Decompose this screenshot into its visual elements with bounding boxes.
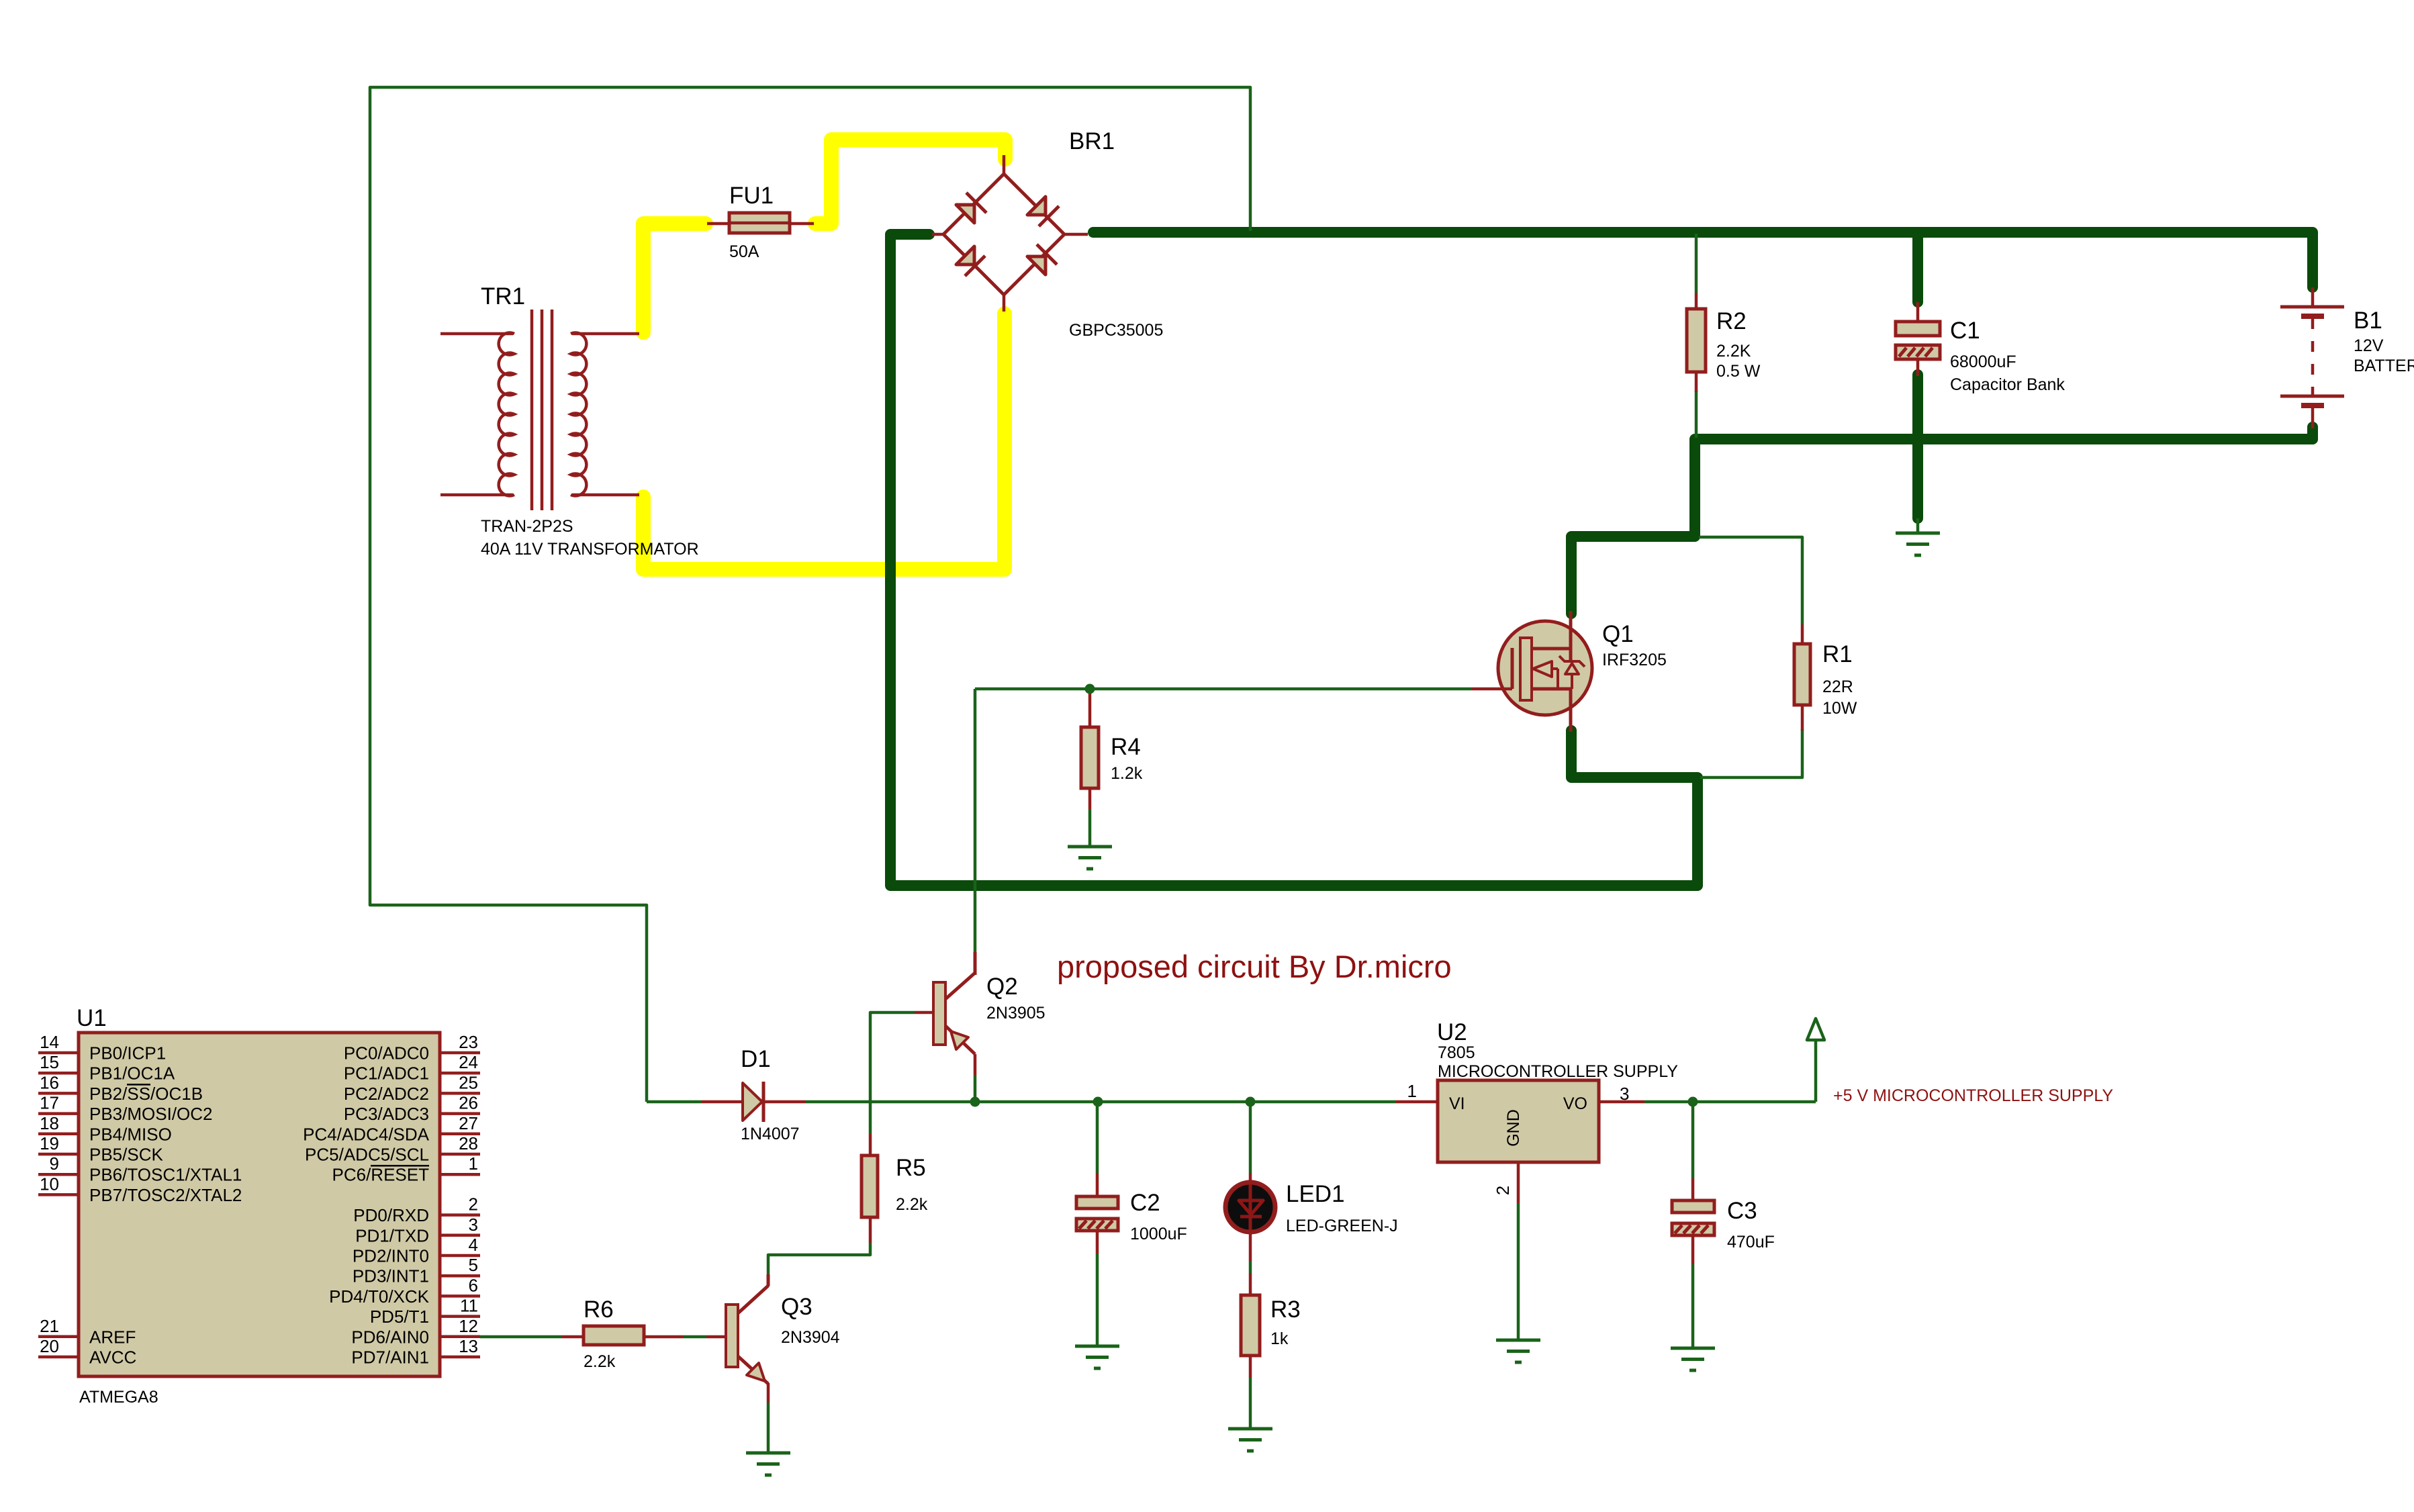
- svg-text:C1: C1: [1950, 318, 1980, 344]
- label U2 pin number 1: [1407, 1081, 1417, 1101]
- wire: LED1 cathode to R3 top: [1249, 1231, 1252, 1296]
- label R4 value 1.2k: [1111, 764, 1143, 783]
- svg-text:PC4/ADC4/SDA: PC4/ADC4/SDA: [303, 1124, 429, 1144]
- wire: U2 GND pin 2 to ground: [1517, 1162, 1520, 1339]
- wire: R3 bottom lead to ground: [1249, 1356, 1252, 1427]
- svg-text:24: 24: [459, 1052, 478, 1072]
- label Q3 model 2N3904: [781, 1328, 840, 1347]
- svg-text:ATMEGA8: ATMEGA8: [79, 1388, 158, 1407]
- wire: drain node over to R1 top: [1699, 537, 1802, 624]
- transformer TR1: [440, 310, 639, 510]
- svg-text:VO: VO: [1563, 1094, 1587, 1113]
- junction: gate line / R4: [1085, 684, 1095, 694]
- svg-text:14: 14: [40, 1032, 59, 1052]
- U1 left pin 20 AVCC: [38, 1336, 136, 1368]
- svg-text:16: 16: [40, 1072, 59, 1092]
- svg-text:3: 3: [469, 1215, 478, 1235]
- label C1 value 68000uF: [1950, 352, 2016, 371]
- svg-text:9: 9: [50, 1153, 59, 1174]
- label TR1 value 40A 11V TRANSFORMATOR: [481, 540, 699, 559]
- svg-text:proposed circuit By Dr.micro: proposed circuit By Dr.micro: [1057, 949, 1452, 984]
- svg-text:1000uF: 1000uF: [1130, 1225, 1187, 1243]
- svg-text:PC1/ADC1: PC1/ADC1: [344, 1064, 429, 1084]
- svg-text:22R: 22R: [1822, 677, 1853, 696]
- label BR1 designator: [1069, 128, 1115, 154]
- label R2 value 2.2K: [1716, 342, 1751, 361]
- svg-text:GBPC35005: GBPC35005: [1069, 321, 1163, 340]
- svg-text:25: 25: [459, 1072, 478, 1092]
- svg-text:R4: R4: [1111, 734, 1141, 760]
- svg-text:13: 13: [459, 1336, 478, 1356]
- svg-text:PD4/T0/XCK: PD4/T0/XCK: [329, 1286, 429, 1307]
- U1 left pin 21 AREF: [38, 1316, 136, 1348]
- fuse FU1: [707, 213, 814, 233]
- label R5 value 2.2k: [896, 1195, 928, 1214]
- svg-text:AVCC: AVCC: [89, 1348, 136, 1368]
- svg-text:PB4/MISO: PB4/MISO: [89, 1124, 172, 1144]
- microcontroller U1 (ATMEGA8): [79, 1033, 440, 1376]
- resistor R1: [1794, 624, 1810, 730]
- U1 right pin 5 PD3/INT1: [353, 1255, 480, 1286]
- svg-text:PB5/SCK: PB5/SCK: [89, 1145, 163, 1165]
- U1 right pin 1 PC6/RESET: [332, 1153, 481, 1185]
- svg-text:3: 3: [1620, 1084, 1629, 1104]
- ground: below C2: [1075, 1346, 1119, 1368]
- svg-text:1N4007: 1N4007: [741, 1125, 800, 1143]
- svg-text:LED-GREEN-J: LED-GREEN-J: [1286, 1217, 1398, 1235]
- svg-text:1: 1: [1407, 1081, 1417, 1101]
- wire thick: Q1 source to bottom return bus to BR1 - output: [890, 234, 1698, 886]
- ground: below R4: [1068, 847, 1112, 869]
- U1 left pin 14 PB0/ICP1: [38, 1032, 166, 1064]
- U1 right pin 24 PC1/ADC1: [344, 1052, 480, 1084]
- label R5 designator: [896, 1155, 926, 1181]
- U1 right pin 11 PD5/T1: [370, 1296, 480, 1327]
- wire thick: C1 bottom lead through lower bus to ground: [1912, 375, 1923, 518]
- svg-text:PD6/AIN0: PD6/AIN0: [351, 1327, 429, 1347]
- resistor R2: [1687, 293, 1706, 392]
- wire: Q2 collector up to gate line: [974, 689, 977, 953]
- label U2 value 7805: [1438, 1043, 1475, 1062]
- svg-text:LED1: LED1: [1286, 1181, 1345, 1207]
- transistor Q1 (IRF3205 MOSFET): [1472, 611, 1592, 732]
- wire yellow: TR1 secondary bottom to BR1 bottom (AC input): [643, 314, 1005, 569]
- wire: from positive bus at x=1862 up and around left frame down to D1 anode: [370, 87, 1250, 1102]
- svg-text:2N3904: 2N3904: [781, 1328, 840, 1347]
- svg-text:15: 15: [40, 1052, 59, 1072]
- svg-text:C2: C2: [1130, 1190, 1160, 1216]
- wire: Q3 emitter to ground: [767, 1383, 770, 1452]
- U1 left pin 16 PB2/SS/OC1B: [38, 1072, 203, 1104]
- svg-text:26: 26: [459, 1093, 478, 1113]
- label C3 value 470uF: [1727, 1233, 1775, 1251]
- label TR1 designator: [481, 283, 525, 310]
- label Q3 designator: [781, 1294, 813, 1320]
- U1 left pin 19 PB5/SCK: [38, 1133, 163, 1165]
- junction: LED1 tap: [1246, 1097, 1256, 1107]
- svg-text:27: 27: [459, 1113, 478, 1133]
- svg-text:2.2k: 2.2k: [584, 1352, 616, 1371]
- label R1 value 22R: [1822, 677, 1853, 696]
- ground: below R3: [1228, 1429, 1272, 1451]
- svg-text:2.2K: 2.2K: [1716, 342, 1751, 361]
- svg-text:17: 17: [40, 1093, 59, 1113]
- svg-text:PD7/AIN1: PD7/AIN1: [351, 1348, 429, 1368]
- label Q2 model 2N3905: [986, 1004, 1046, 1023]
- wire: C3 bottom lead to ground: [1691, 1234, 1695, 1347]
- capacitor C1: [1896, 302, 1940, 376]
- label Q2 designator: [986, 974, 1018, 1000]
- label R1 designator: [1822, 641, 1853, 667]
- label LED1 model LED-GREEN-J: [1286, 1217, 1398, 1235]
- label U1 designator: [77, 1005, 107, 1031]
- svg-text:40A 11V TRANSFORMATOR: 40A 11V TRANSFORMATOR: [481, 540, 699, 559]
- svg-text:PD1/TXD: PD1/TXD: [355, 1225, 429, 1245]
- transistor Q2 (2N3905 PNP): [915, 952, 975, 1054]
- wire: R2 bottom lead to lower bus: [1695, 391, 1698, 438]
- label C1 designator: [1950, 318, 1980, 344]
- label BR1 model GBPC35005: [1069, 321, 1163, 340]
- label U2 pin name VI: [1449, 1094, 1465, 1113]
- label Q1 model IRF3205: [1602, 651, 1667, 669]
- resistor R4: [1081, 727, 1099, 788]
- svg-text:Q3: Q3: [781, 1294, 813, 1320]
- wire: D1 cathode to U2 VI input row: [806, 1100, 1396, 1104]
- wire thick: battery B1 negative lead down to lower bus: [2307, 427, 2318, 439]
- svg-text:PB0/ICP1: PB0/ICP1: [89, 1043, 166, 1064]
- ground: below U2: [1496, 1340, 1540, 1362]
- U1 right pin 13 PD7/AIN1: [351, 1336, 480, 1368]
- svg-text:2.2k: 2.2k: [896, 1195, 928, 1214]
- wire thick: C1 top lead to positive bus: [1912, 232, 1923, 302]
- regulator U2 (7805): [1438, 1080, 1599, 1162]
- label B1 designator: [2354, 308, 2382, 334]
- svg-text:1k: 1k: [1270, 1329, 1289, 1348]
- wire: Q2 emitter down to supply row junction: [974, 1054, 977, 1100]
- wire: C2 bottom lead to ground: [1096, 1229, 1099, 1345]
- wire: LED1 top lead from supply row: [1249, 1103, 1252, 1187]
- resistor R5: [862, 1155, 878, 1217]
- svg-text:PD3/INT1: PD3/INT1: [353, 1266, 429, 1286]
- wire thick: lower bus from battery to R2 node, jog down-left to Q1 drain: [1571, 439, 2313, 614]
- svg-text:R2: R2: [1716, 308, 1747, 334]
- label C3 designator: [1727, 1198, 1757, 1224]
- capacitor C2: [1076, 1196, 1118, 1231]
- svg-text:7805: 7805: [1438, 1043, 1475, 1062]
- junction: C3 tap: [1688, 1097, 1698, 1107]
- label R6 designator: [584, 1296, 614, 1323]
- wire yellow: TR1 secondary top to FU1 left: [643, 224, 706, 332]
- wire: C3 top lead: [1691, 1103, 1695, 1202]
- resistor R3: [1241, 1295, 1260, 1356]
- capacitor C3: [1672, 1200, 1714, 1235]
- svg-text:12: 12: [459, 1316, 478, 1336]
- svg-text:TR1: TR1: [481, 283, 525, 310]
- svg-text:VI: VI: [1449, 1094, 1465, 1113]
- svg-text:10W: 10W: [1822, 699, 1857, 718]
- svg-text:Q2: Q2: [986, 974, 1018, 1000]
- svg-text:PB7/TOSC2/XTAL2: PB7/TOSC2/XTAL2: [89, 1185, 242, 1205]
- U1 right pin 26 PC3/ADC3: [344, 1093, 480, 1125]
- label B1 value 12V: [2354, 336, 2384, 355]
- U1 right pin 3 PD1/TXD: [355, 1215, 480, 1246]
- wire: R4 top lead from gate line junction: [1088, 689, 1092, 728]
- wire: U2 VI lead: [1396, 1100, 1438, 1104]
- svg-text:2N3905: 2N3905: [986, 1004, 1046, 1023]
- svg-text:21: 21: [40, 1316, 59, 1336]
- svg-text:2: 2: [1493, 1186, 1513, 1195]
- svg-text:470uF: 470uF: [1727, 1233, 1775, 1251]
- svg-text:0.5 W: 0.5 W: [1716, 362, 1761, 381]
- svg-text:TRAN-2P2S: TRAN-2P2S: [481, 517, 573, 536]
- wire yellow: FU1 right to BR1 top (AC input): [815, 140, 1005, 224]
- svg-text:BR1: BR1: [1069, 128, 1115, 154]
- svg-text:10: 10: [40, 1174, 59, 1194]
- label LED1 designator: [1286, 1181, 1345, 1207]
- svg-text:18: 18: [40, 1113, 59, 1133]
- label R3 designator: [1270, 1296, 1301, 1323]
- svg-text:PC0/ADC0: PC0/ADC0: [344, 1043, 429, 1064]
- svg-text:R1: R1: [1822, 641, 1853, 667]
- label D1 designator: [741, 1046, 771, 1072]
- U1 left pin 17 PB3/MOSI/OC2: [38, 1093, 213, 1125]
- junction: Q2 emitter on supply row: [970, 1097, 980, 1107]
- junction: C2 tap: [1093, 1097, 1103, 1107]
- svg-text:AREF: AREF: [89, 1327, 136, 1347]
- wire: R6 right lead to Q3 base: [644, 1335, 726, 1339]
- svg-text:PB6/TOSC1/XTAL1: PB6/TOSC1/XTAL1: [89, 1165, 242, 1185]
- label FU1 value 50A: [729, 242, 759, 261]
- battery B1: [2280, 287, 2344, 428]
- label R2 value 0.5W: [1716, 362, 1761, 381]
- label U2 description MICROCONTROLLER SUPPLY: [1438, 1062, 1678, 1081]
- svg-text:FU1: FU1: [729, 183, 774, 209]
- svg-text:B1: B1: [2354, 308, 2382, 334]
- power arrow: +5V supply: [1807, 1019, 1824, 1040]
- label R6 value 2.2k: [584, 1352, 616, 1371]
- svg-text:PD2/INT0: PD2/INT0: [353, 1246, 429, 1266]
- svg-text:D1: D1: [741, 1046, 771, 1072]
- svg-text:28: 28: [459, 1133, 478, 1153]
- label D1 model 1N4007: [741, 1125, 800, 1143]
- svg-text:50A: 50A: [729, 242, 759, 261]
- svg-text:PD5/T1: PD5/T1: [370, 1307, 429, 1327]
- svg-text:2: 2: [469, 1194, 478, 1215]
- ground: below C3: [1671, 1348, 1715, 1370]
- label U1 model ATMEGA8: [79, 1388, 158, 1407]
- U1 right pin 12 PD6/AIN0: [351, 1316, 480, 1348]
- U1 left pin 18 PB4/MISO: [38, 1113, 172, 1145]
- svg-text:PB3/MOSI/OC2: PB3/MOSI/OC2: [89, 1104, 213, 1124]
- svg-text:PB1/OC1A: PB1/OC1A: [89, 1064, 175, 1084]
- svg-text:Q1: Q1: [1602, 621, 1634, 647]
- U1 right pin 4 PD2/INT0: [353, 1235, 480, 1266]
- wire thick: positive bus from BR1 + output along top to battery B1: [1093, 232, 2313, 287]
- label R4 designator: [1111, 734, 1141, 760]
- svg-text:6: 6: [469, 1275, 478, 1295]
- net label: +5 V MICROCONTROLLER SUPPLY: [1833, 1086, 2113, 1105]
- label FU1 designator: [729, 183, 774, 209]
- label R3 value 1k: [1270, 1329, 1289, 1348]
- svg-text:R3: R3: [1270, 1296, 1301, 1323]
- wire: D1 anode from frame corner: [647, 1100, 702, 1104]
- label R1 value 10W: [1822, 699, 1857, 718]
- label R2 designator: [1716, 308, 1747, 334]
- diode D1: [702, 1082, 806, 1122]
- svg-text:19: 19: [40, 1133, 59, 1153]
- ground: below Q3 emitter: [746, 1453, 790, 1475]
- svg-text:PC6/RESET: PC6/RESET: [332, 1165, 430, 1185]
- U1 left pin 10 PB7/TOSC2/XTAL2: [38, 1174, 242, 1205]
- svg-text:20: 20: [40, 1336, 59, 1356]
- svg-text:23: 23: [459, 1032, 478, 1052]
- svg-text:Capacitor Bank: Capacitor Bank: [1950, 375, 2065, 394]
- bridge rectifier BR1: [932, 155, 1088, 312]
- wire: R1 bottom to Q1 source node: [1700, 729, 1802, 777]
- svg-text:1.2k: 1.2k: [1111, 764, 1143, 783]
- label U2 designator: [1437, 1019, 1467, 1045]
- label U2 pin name VO: [1563, 1094, 1587, 1113]
- U1 right pin 25 PC2/ADC2: [344, 1072, 480, 1104]
- svg-text:R5: R5: [896, 1155, 926, 1181]
- wire: U2 VO output to C3 node and +5V arrow: [1599, 1040, 1816, 1102]
- svg-text:PB2/SS/OC1B: PB2/SS/OC1B: [89, 1084, 203, 1104]
- wire: R5 bottom to Q3 collector: [768, 1217, 870, 1286]
- U1 right pin 23 PC0/ADC0: [344, 1032, 480, 1064]
- label TR1 model TRAN-2P2S: [481, 517, 573, 536]
- label U2 pin number 3: [1620, 1084, 1629, 1104]
- svg-text:MICROCONTROLLER SUPPLY: MICROCONTROLLER SUPPLY: [1438, 1062, 1678, 1081]
- U1 left pin 9 PB6/TOSC1/XTAL1: [38, 1153, 242, 1185]
- note: proposed circuit By Dr.micro: [1057, 949, 1452, 984]
- svg-text:U1: U1: [77, 1005, 107, 1031]
- label C2 value 1000uF: [1130, 1225, 1187, 1243]
- label B1 value BATTERY: [2354, 357, 2414, 375]
- svg-text:C3: C3: [1727, 1198, 1757, 1224]
- resistor R6: [584, 1326, 644, 1345]
- svg-text:12V: 12V: [2354, 336, 2384, 355]
- wire: Q1 gate line from Q2 collector column across to Q1, R4 tap: [975, 688, 1472, 691]
- svg-text:R6: R6: [584, 1296, 614, 1323]
- label U2 pin number 2 (rotated): [1493, 1186, 1513, 1195]
- U1 right pin 6 PD4/T0/XCK: [329, 1275, 480, 1307]
- svg-text:PC5/ADC5/SCL: PC5/ADC5/SCL: [305, 1145, 429, 1165]
- svg-text:68000uF: 68000uF: [1950, 352, 2016, 371]
- svg-text:PC3/ADC3: PC3/ADC3: [344, 1104, 429, 1124]
- svg-text:5: 5: [469, 1255, 478, 1275]
- label C1 value Capacitor Bank: [1950, 375, 2065, 394]
- ground: below C1: [1896, 533, 1940, 555]
- svg-text:PC2/ADC2: PC2/ADC2: [344, 1084, 429, 1104]
- wire: R4 bottom lead to ground: [1088, 788, 1092, 845]
- svg-text:4: 4: [469, 1235, 478, 1255]
- label C2 designator: [1130, 1190, 1160, 1216]
- svg-text:11: 11: [460, 1296, 478, 1316]
- U1 right pin 2 PD0/RXD: [353, 1194, 480, 1226]
- svg-text:GND: GND: [1504, 1109, 1523, 1147]
- label U2 pin name GND (rotated): [1504, 1109, 1523, 1147]
- svg-text:1: 1: [469, 1153, 478, 1174]
- wire: R2 top lead to positive bus: [1695, 234, 1698, 293]
- svg-text:U2: U2: [1437, 1019, 1467, 1045]
- wire: U1 pin 12 PD6/AIN0 to R6: [480, 1335, 584, 1339]
- U1 left pin 15 PB1/OC1A: [38, 1052, 175, 1084]
- svg-text:IRF3205: IRF3205: [1602, 651, 1667, 669]
- svg-text:PD0/RXD: PD0/RXD: [353, 1205, 429, 1225]
- U1 right pin 27 PC4/ADC4/SDA: [303, 1113, 480, 1145]
- transistor Q3 (2N3904 NPN): [726, 1274, 768, 1384]
- label Q1 designator: [1602, 621, 1634, 647]
- wire: C2 top lead from supply row: [1096, 1103, 1099, 1198]
- U1 right pin 28 PC5/ADC5/SCL: [305, 1133, 480, 1165]
- wire: Q2 base to R5 top (crosses D1 row, no junction): [870, 1012, 915, 1157]
- wire: C1 bottom ground stem: [1916, 518, 1920, 532]
- svg-text:+5 V MICROCONTROLLER SUPPLY: +5 V MICROCONTROLLER SUPPLY: [1833, 1086, 2113, 1105]
- svg-text:BATTERY: BATTERY: [2354, 357, 2414, 375]
- LED LED1: [1225, 1182, 1275, 1232]
